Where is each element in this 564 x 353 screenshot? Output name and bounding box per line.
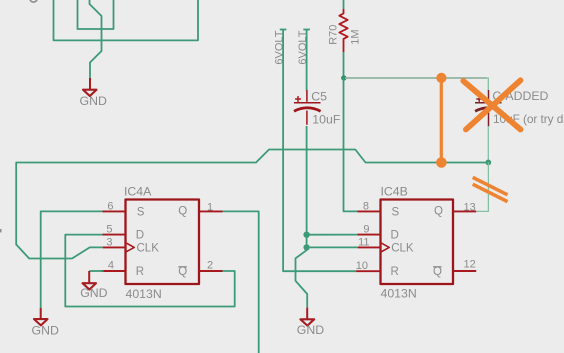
svg-text:S: S [137,207,145,219]
wire outer U loop top-left [54,0,199,40]
svg-text:10uF: 10uF [312,113,341,127]
power label 6VOLT rail 2 [297,30,310,65]
ground symbol GND bottom-left [32,308,59,338]
IC4B pin 9 stub D [358,223,399,241]
svg-text:CLK: CLK [391,243,414,255]
svg-text:9: 9 [363,223,369,235]
wire junction to IC4B pin 8 [344,78,358,211]
wire snake to GND top-left [90,0,102,78]
IC4A pin 3 stub CLK [103,236,160,254]
svg-text:S: S [392,207,400,219]
svg-text:R70: R70 [327,25,339,45]
svg-text:10: 10 [356,260,368,272]
ground symbol GND top-left [80,78,107,108]
svg-text:IC4B: IC4B [381,185,408,199]
wire CLK IC4A to bus (node bus) [16,150,488,259]
ground symbol GND at IC4A pin 4 [80,271,107,300]
IC4B pin 11 stub CLK [358,236,414,254]
svg-text:Q: Q [178,206,187,218]
svg-text:D: D [136,230,144,242]
svg-text:6: 6 [107,200,113,212]
power label 6VOLT rail 1 [274,30,287,65]
node junction dot bus right [485,160,491,166]
partial component text fragment top-left [30,0,37,2]
svg-text:2: 2 [207,260,213,272]
node junction dot D row [303,232,309,238]
wire junction down to IC4B pin 13 [476,162,488,211]
svg-text:3: 3 [106,236,112,248]
svg-text:R: R [136,266,144,278]
wire 6VOLT rail 1 to IC4B pin 10 [283,30,356,272]
ground symbol GND bottom-middle [297,308,324,338]
svg-text:CLK: CLK [137,243,160,255]
wire inner U loop top-left [78,0,114,29]
op-amp/IC IC4A body [124,185,199,301]
svg-text:4013N: 4013N [381,286,417,300]
svg-text:12: 12 [464,258,476,270]
svg-text:C5: C5 [311,89,327,103]
svg-text:8: 8 [363,200,369,212]
IC4B pin 13 stub Q [434,201,476,217]
svg-text:5: 5 [106,223,112,235]
node orange dot top [436,73,446,83]
svg-text:13: 13 [464,201,476,213]
svg-text:1: 1 [207,201,213,213]
svg-text:4013N: 4013N [126,287,162,301]
resistor R70 1M [327,0,361,52]
wire IC4A pin 1 down off-screen [223,211,259,353]
wire junction to IC4B pin 9 [307,234,358,236]
op-amp/IC IC4B body [381,185,454,301]
svg-text:IC4A: IC4A [124,185,152,199]
wire 6VOLT rail 2 lower segment to junction dots [306,126,308,247]
svg-text:GND: GND [297,323,324,337]
IC4A pin 5 stub D [103,223,145,241]
IC4A pin 6 stub S [103,200,145,218]
IC4A pin 1 stub Q [178,201,222,217]
node junction dot at R70 [341,75,346,80]
wire R70 to junction [343,52,345,78]
IC4A pin 2 stub Qbar [178,260,222,278]
svg-text:GND: GND [80,94,107,108]
deletion slashes on wire [473,177,508,201]
svg-text:GND: GND [32,324,59,338]
wire C-ADDED to bus junction [487,126,489,163]
svg-text:11: 11 [358,236,369,248]
svg-text:Q: Q [178,266,187,278]
IC4B pin 8 stub S [358,200,400,218]
svg-text:1M: 1M [350,30,362,45]
wire IC4A pin 6 to GND [41,211,103,308]
svg-text:R: R [391,266,399,278]
capacitor C5 [294,89,341,126]
deletion cross X over C-ADDED [463,80,520,129]
IC4A pin 4 stub R [101,260,144,278]
wire junction to IC4B pin 11 [307,246,358,248]
node orange dot bottom [436,157,447,168]
svg-text:GND: GND [80,286,107,300]
node junction dot CLK row [303,244,309,250]
orange bypass wire [440,78,443,162]
wire 6VOLT rail 2 upper segment [306,30,308,91]
wire IC4A pin 5 to pin 2 loop [65,235,234,307]
capacitor C-ADDED (deleted) [475,89,564,126]
IC4B pin 10 stub R [356,260,399,278]
svg-text:Q: Q [433,266,442,278]
IC4B pin 12 stub Qbar [433,258,476,278]
svg-text:D: D [391,230,399,242]
wire top rail to C-ADDED branch [345,78,488,91]
wire junction to bottom GND [296,247,308,308]
svg-text:4: 4 [108,260,114,272]
wire IC4A pin 4 to GND [89,270,103,272]
text fragment left edge [0,229,2,232]
svg-text:Q: Q [434,206,443,218]
